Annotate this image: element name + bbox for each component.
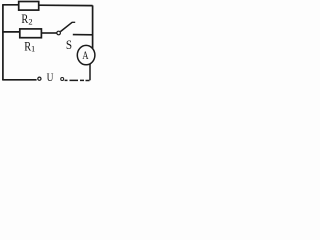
wire: left vertical	[2, 5, 4, 80]
wire: dashed bottom segment	[65, 79, 90, 81]
wire: top right segment from R2 to corner	[39, 4, 93, 6]
wire: middle left segment to R1	[2, 31, 20, 33]
wire: top left segment to R2	[2, 4, 19, 6]
switch S pivot	[57, 31, 61, 35]
svg-text:2: 2	[28, 16, 32, 26]
svg-text:S: S	[66, 37, 72, 52]
switch S blade tip tick	[72, 21, 75, 23]
svg-text:U: U	[47, 70, 54, 84]
ammeter A	[77, 45, 95, 64]
resistor R2	[19, 2, 39, 11]
resistor R1	[20, 29, 42, 38]
wire: ammeter bottom lead	[89, 64, 91, 81]
switch S blade	[60, 22, 72, 31]
svg-text:A: A	[82, 48, 89, 62]
wire: right vertical down to ammeter	[92, 5, 94, 48]
terminal (left)	[38, 77, 41, 80]
wire: segment from R1 to switch	[41, 32, 56, 34]
terminal (right)	[61, 78, 64, 81]
wire: bottom solid segment	[2, 79, 36, 81]
svg-text:1: 1	[31, 44, 35, 54]
wire: segment from switch to right vertical	[73, 34, 93, 36]
